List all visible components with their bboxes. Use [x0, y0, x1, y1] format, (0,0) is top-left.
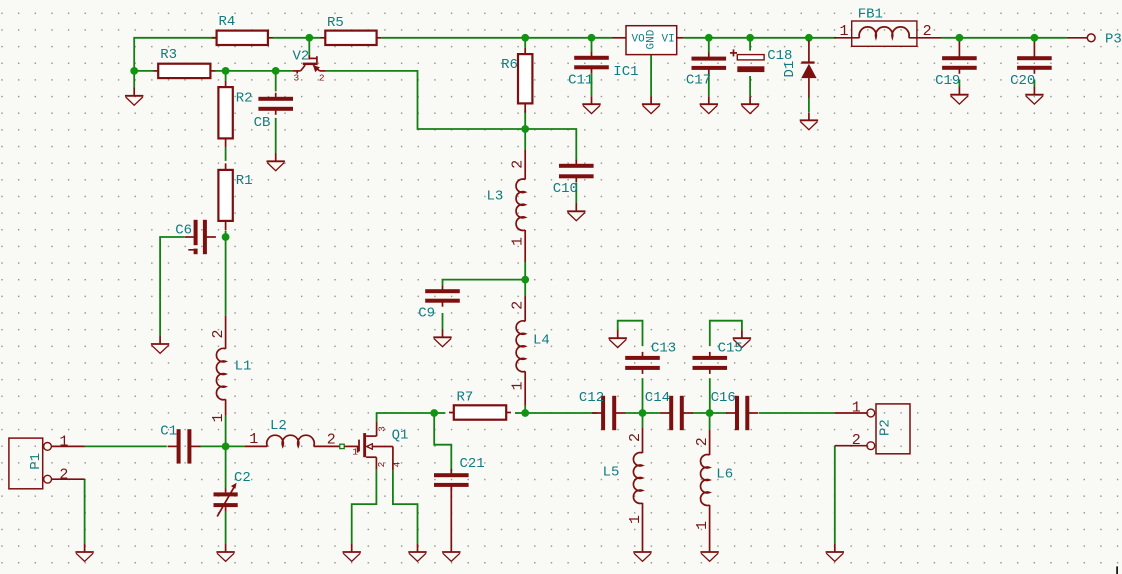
ground Q1-source — [343, 544, 361, 561]
svg-text:3: 3 — [377, 426, 388, 432]
svg-text:1: 1 — [352, 447, 358, 458]
ground C9 — [433, 329, 451, 346]
svg-text:L5: L5 — [603, 464, 620, 480]
wire R4 to R5 — [273, 37, 321, 39]
wire R5 to IC1 — [382, 37, 613, 39]
svg-text:1: 1 — [627, 515, 644, 524]
ground C17 — [700, 96, 718, 113]
wire top bus left — [134, 38, 216, 71]
ground C20 — [1025, 87, 1043, 104]
svg-text:C1: C1 — [160, 424, 177, 440]
svg-text:2: 2 — [510, 160, 527, 169]
terminal P3 — [1067, 31, 1122, 47]
frame corner tick — [1116, 566, 1118, 574]
inductor L2 — [267, 418, 314, 446]
wire L4 top stub — [524, 280, 526, 296]
svg-text:1: 1 — [510, 381, 527, 390]
wire R2 top stub — [225, 71, 227, 81]
ground C10 — [567, 203, 585, 220]
ground P1-pin2 — [75, 544, 93, 561]
wire P2 pin2 to gnd — [834, 446, 836, 544]
wire V2 collector — [308, 38, 310, 55]
resistor R1 — [218, 163, 252, 230]
ferrite bead FB1 — [834, 7, 941, 47]
junction — [588, 34, 596, 42]
inductor L4 — [516, 321, 550, 372]
resistor R2 — [218, 81, 252, 148]
wire R3 to V2 — [215, 70, 293, 72]
svg-text:2: 2 — [319, 73, 325, 84]
resistor R7 — [449, 389, 511, 419]
wire L5 top stub — [642, 413, 644, 428]
svg-text:C20: C20 — [1010, 73, 1035, 89]
wire C21 elbow — [434, 413, 451, 471]
capacitor C11 — [568, 52, 609, 89]
junction — [705, 34, 713, 42]
wire IC1 to FB1 — [684, 37, 836, 39]
wire C18 top stub — [749, 38, 751, 51]
junction — [521, 125, 529, 133]
capacitor C6 polarity mark — [188, 245, 198, 250]
wire R7 right stub — [515, 412, 525, 414]
svg-text:C21: C21 — [460, 456, 485, 472]
svg-text:1: 1 — [510, 237, 527, 246]
connector P1 — [9, 434, 85, 489]
wire C13 bottom — [642, 378, 644, 413]
wire Q1 bulk to gnd — [393, 470, 418, 544]
svg-text:VI: VI — [662, 34, 675, 46]
capacitor C14 — [645, 390, 693, 430]
junction — [305, 34, 313, 42]
svg-text:1: 1 — [59, 434, 68, 451]
capacitor C12 — [579, 390, 625, 430]
junction — [521, 34, 529, 42]
wire C9 run — [443, 280, 526, 286]
node L2-Q1 gate marker — [340, 444, 344, 448]
capacitor C8 — [254, 93, 293, 131]
wire R7 left stub — [434, 412, 445, 414]
capacitor C15 — [693, 341, 743, 374]
svg-text:P1: P1 — [28, 453, 44, 470]
svg-text:C13: C13 — [651, 341, 676, 357]
junction — [521, 276, 529, 284]
svg-text:1: 1 — [249, 431, 258, 448]
wire C11 top stub — [591, 38, 593, 52]
svg-text:R3: R3 — [160, 47, 177, 63]
wire C12 left — [525, 412, 597, 414]
wire R6 bottom — [524, 110, 526, 129]
inductor L3 leads and pin numbers — [510, 150, 527, 262]
svg-text:2: 2 — [923, 23, 932, 40]
junction — [639, 409, 647, 417]
wire L1 top — [225, 237, 227, 316]
inductor L6 leads and pin numbers — [694, 430, 711, 552]
svg-text:R6: R6 — [501, 57, 518, 73]
junction — [746, 34, 754, 42]
resistor R4 — [212, 14, 273, 45]
wire C15 bottom — [709, 378, 711, 413]
svg-text:2: 2 — [694, 437, 711, 446]
wire C21 bottom lead — [450, 487, 452, 552]
capacitor C17 — [686, 53, 726, 89]
svg-text:2: 2 — [59, 466, 68, 483]
svg-text:GND: GND — [646, 29, 658, 49]
wire D1 to gnd mid — [808, 98, 810, 112]
capacitor C20 — [1010, 42, 1052, 89]
ground L5 — [633, 552, 651, 562]
ground C19 — [950, 87, 968, 104]
capacitor C9 — [418, 285, 460, 321]
wire L3 top stub — [524, 129, 526, 150]
inductor L2 leads and pin numbers — [245, 431, 340, 449]
wire V2 emitter run — [326, 71, 577, 161]
wire P1 pin2 to gnd — [84, 479, 86, 544]
wire C19 to gnd — [958, 80, 960, 87]
wire L3 bottom stub — [524, 262, 526, 280]
wire R1 bottom — [225, 231, 227, 237]
svg-text:C9: C9 — [418, 305, 435, 321]
wire C17 to gnd — [708, 74, 710, 97]
ground C11 — [582, 96, 600, 113]
svg-text:C11: C11 — [568, 73, 593, 89]
ground D1 — [800, 112, 818, 129]
ground C15 — [733, 330, 751, 347]
resistor R5 — [321, 15, 382, 45]
wire P1 pin1 to C1 — [85, 445, 167, 447]
ground P2-pin2 — [826, 544, 844, 561]
wire C12 to junction — [625, 412, 643, 414]
inductor L3 — [487, 179, 526, 230]
capacitor C16 — [711, 390, 759, 430]
capacitor C1 — [160, 424, 200, 464]
inductor L5 leads and pin numbers — [627, 428, 644, 552]
svg-text:C14: C14 — [645, 390, 670, 406]
svg-text:C10: C10 — [553, 181, 578, 197]
junction — [130, 67, 138, 75]
inductor L6 — [701, 455, 734, 506]
junction — [222, 67, 230, 75]
inductor L1 leads and pin numbers — [210, 316, 227, 423]
capacitor C18 — [730, 48, 792, 72]
junction — [272, 67, 280, 75]
wire L2 left stub — [226, 445, 245, 447]
capacitor C6 — [175, 220, 216, 254]
svg-text:C17: C17 — [686, 72, 711, 88]
wire L4 bottom stub — [524, 405, 526, 413]
wire R6 top stub — [524, 38, 526, 48]
svg-text:L1: L1 — [235, 359, 252, 375]
ground C13 — [609, 330, 627, 347]
junction — [1031, 34, 1039, 42]
junction — [222, 443, 230, 451]
connector P2 — [835, 399, 910, 453]
svg-text:IC1: IC1 — [613, 64, 638, 80]
wire FB1 to P3 — [941, 37, 1067, 39]
svg-text:L4: L4 — [533, 333, 550, 349]
capacitor C13 — [625, 341, 676, 374]
wire C6 left run to gnd — [160, 237, 184, 336]
junction — [521, 409, 529, 417]
svg-text:C15: C15 — [718, 341, 743, 357]
capacitor C10 — [553, 160, 594, 197]
junction — [430, 409, 438, 417]
svg-text:CB: CB — [254, 115, 271, 131]
ground C21 — [442, 552, 460, 562]
resistor R6 — [501, 48, 532, 113]
transistor V2 — [293, 48, 326, 83]
wire Q1 drain run — [377, 413, 435, 422]
resistor R3 — [153, 47, 215, 78]
wire net2 left — [134, 70, 153, 72]
inductor L1 — [216, 348, 251, 399]
svg-text:L2: L2 — [270, 418, 287, 434]
wire C17 top stub — [708, 38, 710, 53]
svg-text:L3: L3 — [487, 189, 504, 205]
svg-text:2: 2 — [327, 432, 336, 449]
ground C8 — [267, 153, 285, 170]
svg-text:1: 1 — [210, 413, 227, 422]
capacitor C19 — [935, 42, 977, 89]
svg-text:2: 2 — [627, 433, 644, 442]
wire C10 to gnd — [575, 183, 577, 204]
svg-text:P2: P2 — [878, 419, 894, 436]
wire Q1 source to gnd — [352, 469, 377, 544]
wire C14 left stub — [643, 412, 661, 414]
wire C9 to gnd — [442, 313, 444, 330]
svg-text:4: 4 — [392, 461, 403, 467]
svg-text:3: 3 — [294, 72, 300, 83]
svg-text:1: 1 — [840, 23, 849, 40]
junction — [956, 34, 964, 42]
junction — [805, 34, 813, 42]
ground Q1-bulk — [408, 544, 426, 561]
svg-text:L6: L6 — [716, 467, 733, 483]
wire C16 to P2 — [759, 412, 835, 414]
wire C6 right stub — [223, 236, 226, 238]
wire IC1 gnd pin — [650, 55, 652, 97]
transistor Q1 — [346, 422, 409, 470]
wire R2 to R1 — [225, 148, 227, 161]
svg-text:R4: R4 — [219, 14, 236, 30]
ground net2-left — [125, 88, 143, 105]
wire C18 to gnd — [749, 76, 751, 96]
wire C2 to gnd — [225, 511, 227, 544]
wire C8 top stub — [275, 71, 277, 92]
svg-text:2: 2 — [510, 301, 527, 310]
inductor L4 leads and pin numbers — [510, 296, 527, 405]
svg-text:R5: R5 — [327, 15, 344, 31]
svg-text:C6: C6 — [175, 223, 192, 239]
svg-text:R2: R2 — [236, 90, 253, 106]
wire C8 to gnd — [275, 118, 277, 154]
wire L2 to marker — [344, 445, 346, 447]
svg-text:C19: C19 — [935, 73, 960, 89]
svg-text:1: 1 — [852, 399, 861, 416]
wire L6 top stub — [709, 413, 711, 430]
svg-text:2: 2 — [376, 461, 387, 467]
ground C6-side — [151, 336, 169, 353]
svg-text:C16: C16 — [711, 390, 736, 406]
wire C20 to gnd — [1033, 80, 1035, 87]
wire C13 top elbow to gnd — [618, 321, 643, 346]
capacitor C2 (trimmer) — [214, 470, 251, 517]
wire C16 left stub — [710, 412, 727, 414]
junction — [222, 233, 230, 241]
ground C2 — [216, 544, 234, 561]
diode D1 — [782, 41, 817, 99]
svg-text:R1: R1 — [236, 173, 253, 189]
svg-text:VO: VO — [632, 34, 646, 46]
svg-text:V2: V2 — [293, 48, 310, 64]
capacitor C21 — [434, 456, 485, 491]
svg-text:P3: P3 — [1105, 31, 1122, 47]
junction — [706, 409, 714, 417]
wire C15 top elbow to gnd — [710, 321, 742, 346]
wire C11 to gnd — [591, 73, 593, 96]
svg-text:Q1: Q1 — [392, 428, 409, 444]
ground C18 — [741, 96, 759, 113]
svg-text:2: 2 — [210, 329, 227, 338]
wire L1 bottom — [225, 415, 227, 446]
wire C1 to junction — [200, 445, 226, 447]
svg-text:FB1: FB1 — [858, 7, 883, 23]
wire gnd stub under net2 left — [133, 71, 135, 88]
svg-text:C12: C12 — [579, 390, 604, 406]
ground IC1 — [642, 96, 660, 113]
wire C14 to junction — [692, 412, 710, 414]
svg-text:1: 1 — [694, 521, 711, 530]
ground L6 — [700, 552, 718, 562]
svg-text:C2: C2 — [234, 470, 251, 486]
wire C2 top — [225, 446, 227, 488]
svg-text:R7: R7 — [457, 389, 474, 405]
inductor L5 — [603, 453, 643, 504]
svg-text:2: 2 — [852, 432, 861, 449]
svg-text:D1: D1 — [782, 61, 798, 78]
regulator IC1 — [613, 26, 684, 80]
